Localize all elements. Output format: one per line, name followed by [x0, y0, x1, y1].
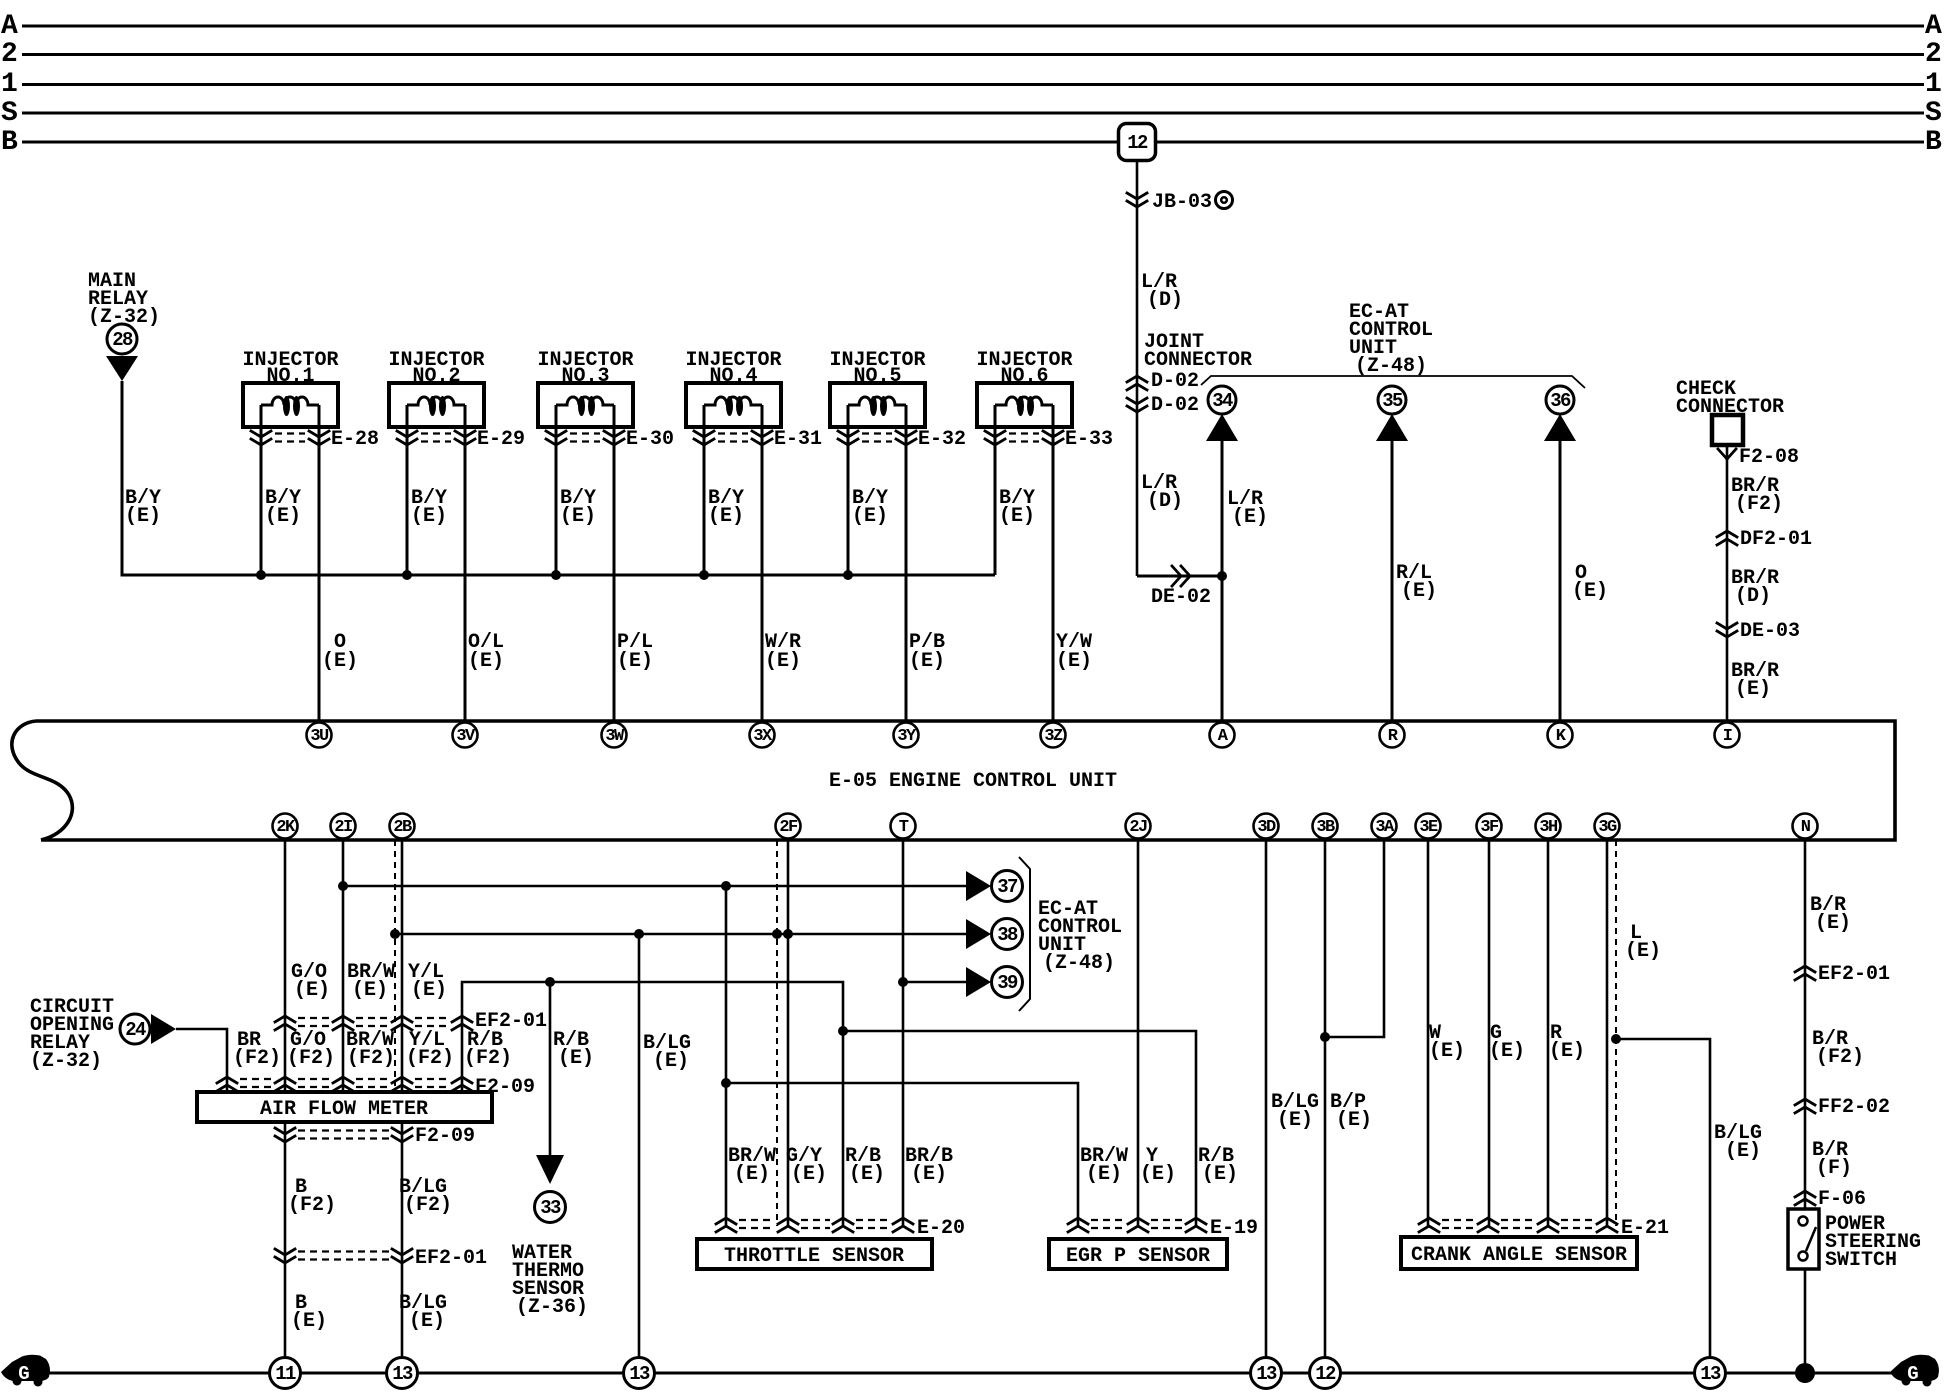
- svg-text:EGR P SENSOR: EGR P SENSOR: [1066, 1245, 1210, 1268]
- svg-text:3B: 3B: [1316, 818, 1335, 837]
- svg-text:(E): (E): [411, 505, 447, 528]
- circuit opening relay circle 24: [120, 1014, 150, 1044]
- junction dot on pin A wire: [1217, 571, 1227, 581]
- ground bus junction dot: [1795, 1363, 1815, 1383]
- daisy mark after JB-03: [1216, 192, 1233, 209]
- svg-text:F2-09: F2-09: [415, 1125, 475, 1148]
- svg-text:(F2): (F2): [1816, 1046, 1864, 1069]
- svg-text:(E): (E): [1549, 1040, 1585, 1063]
- wire ECU 3A joins 3B: [1325, 840, 1384, 1037]
- junction dot T wire: [898, 977, 908, 987]
- shield dashed wire at 2B: [394, 840, 396, 1086]
- svg-text:F2-08: F2-08: [1739, 446, 1799, 469]
- ECU top pin A: [1210, 723, 1235, 748]
- ECU bottom pin 3G: [1595, 814, 1620, 839]
- ground bus node 12: [1310, 1358, 1341, 1389]
- svg-text:(E): (E): [291, 1310, 327, 1333]
- ECU bottom pin T: [891, 814, 916, 839]
- svg-text:(E): (E): [409, 1310, 445, 1333]
- svg-text:(E): (E): [852, 505, 888, 528]
- svg-text:(E): (E): [560, 505, 596, 528]
- wire injector no.6 left pin B/Y: [994, 405, 997, 575]
- ECU top pin 3Y: [894, 723, 919, 748]
- svg-text:B: B: [1925, 127, 1942, 158]
- svg-text:(E): (E): [1056, 650, 1092, 673]
- wire shield 2B to EC-AT 38: [395, 933, 966, 936]
- EC-AT arrow 34: [1206, 414, 1238, 441]
- svg-text:3H: 3H: [1539, 818, 1558, 837]
- svg-text:(F2): (F2): [288, 1194, 336, 1217]
- svg-text:(D): (D): [1147, 289, 1183, 312]
- check connector box: [1712, 415, 1743, 445]
- svg-text:(Z-48): (Z-48): [1043, 952, 1115, 975]
- wire joint connector to pin A wire: [1137, 575, 1222, 578]
- svg-text:E-05 ENGINE CONTROL UNIT: E-05 ENGINE CONTROL UNIT: [829, 770, 1117, 793]
- wire bus line A: [22, 25, 1924, 28]
- connector chevron row EF2-01 lower: [275, 1249, 295, 1263]
- svg-text:B: B: [1, 127, 18, 158]
- svg-text:3G: 3G: [1598, 818, 1617, 837]
- svg-text:S: S: [1925, 98, 1942, 129]
- connector Y symbol F2-08: [1718, 449, 1736, 459]
- wire bus line 2: [22, 53, 1924, 56]
- connector chevron row F2-09 upper: [217, 1077, 237, 1091]
- wire circuit opening relay BR to air flow meter: [176, 1029, 227, 1092]
- junction dot throttle BR/W tap: [721, 881, 731, 891]
- svg-text:AIR FLOW METER: AIR FLOW METER: [260, 1098, 428, 1121]
- svg-text:(E): (E): [999, 505, 1035, 528]
- ECU bottom pin 3B: [1313, 814, 1338, 839]
- svg-text:3Z: 3Z: [1044, 727, 1063, 746]
- svg-text:(E): (E): [1429, 1040, 1465, 1063]
- junction dot shield 2B: [390, 929, 400, 939]
- svg-text:2F: 2F: [779, 818, 798, 837]
- svg-text:E-28: E-28: [331, 428, 379, 451]
- connector chevron D-02 upper: [1127, 376, 1147, 390]
- svg-text:G: G: [1907, 1363, 1918, 1385]
- connector chevron EF2-01 N wire: [1795, 966, 1815, 980]
- wire shield 3G to ground bus: [1616, 1039, 1710, 1373]
- junction dot water thermo tap: [545, 977, 555, 987]
- wire power steering switch to ground bus: [1804, 1269, 1807, 1373]
- ECU bottom pin 3H: [1536, 814, 1561, 839]
- ECU top pin I: [1715, 723, 1740, 748]
- svg-text:E-32: E-32: [918, 428, 966, 451]
- svg-text:1: 1: [1925, 69, 1942, 100]
- EC-AT pin circle 38: [992, 919, 1023, 950]
- ECU bottom pin N: [1793, 814, 1818, 839]
- EC-AT arrow 38: [966, 919, 991, 949]
- wire injector no.3 left pin B/Y: [555, 405, 558, 575]
- ECU top pin 3V: [453, 723, 478, 748]
- junction dot R/B to EGR: [838, 1026, 848, 1036]
- bracket EC-AT 37-39: [1019, 857, 1030, 1011]
- connector chevron DE-02: [1172, 566, 1190, 586]
- power steering switch lever: [1806, 1227, 1816, 1251]
- svg-text:34: 34: [1212, 390, 1233, 412]
- ground bus node 13 d: [1695, 1358, 1726, 1389]
- svg-text:(E): (E): [1489, 1040, 1525, 1063]
- svg-text:DE-02: DE-02: [1151, 586, 1211, 609]
- svg-text:(E): (E): [1572, 580, 1608, 603]
- wire injector no.5 right pin to ECU pin: [905, 405, 908, 721]
- svg-text:A: A: [1925, 11, 1942, 42]
- junction dot injector4 feed: [699, 570, 709, 580]
- junction dot shield 2F: [772, 929, 782, 939]
- svg-text:F-06: F-06: [1818, 1188, 1866, 1211]
- svg-text:(E): (E): [1086, 1163, 1122, 1186]
- svg-text:G: G: [18, 1363, 29, 1385]
- svg-text:11: 11: [275, 1363, 296, 1385]
- air flow meter box: [197, 1092, 492, 1122]
- svg-text:NO.6: NO.6: [1000, 365, 1048, 388]
- svg-text:(E): (E): [708, 505, 744, 528]
- svg-text:NO.2: NO.2: [412, 365, 460, 388]
- injector no.6 connector chevrons E-33: [985, 431, 1005, 445]
- ECU bottom pin 3D: [1254, 814, 1279, 839]
- ground symbol G left: [1, 1355, 50, 1381]
- injector no.2 box: [389, 383, 484, 427]
- junction dot injector2 feed: [402, 570, 412, 580]
- svg-text:(F): (F): [1816, 1157, 1852, 1180]
- svg-text:2B: 2B: [393, 818, 412, 837]
- ECU bottom pin 2I: [331, 814, 356, 839]
- shield dashed wire at 3G: [1615, 840, 1617, 1226]
- wire injector no.5 left pin B/Y: [847, 405, 850, 575]
- wire bus line S: [22, 112, 1924, 115]
- power steering switch box: [1788, 1209, 1819, 1269]
- svg-text:13: 13: [1700, 1363, 1721, 1385]
- ECU top pin 3Z: [1041, 723, 1066, 748]
- connector chevron row E-21: [1419, 1218, 1439, 1232]
- svg-text:12: 12: [1127, 132, 1148, 154]
- wire main relay feed B/Y: [122, 381, 995, 575]
- svg-text:NO.1: NO.1: [266, 365, 314, 388]
- svg-text:38: 38: [997, 924, 1018, 946]
- svg-text:D-02: D-02: [1151, 394, 1199, 417]
- svg-text:3E: 3E: [1419, 818, 1438, 837]
- ECU bottom pin 3E: [1416, 814, 1441, 839]
- svg-text:(E): (E): [617, 650, 653, 673]
- wire from connector 12 down to joint connector: [1136, 160, 1139, 576]
- ECU top pin 3U: [307, 723, 332, 748]
- wire injector no.3 right pin to ECU pin: [613, 405, 616, 721]
- shield dashed wire at 2F: [776, 840, 778, 1226]
- svg-text:3W: 3W: [605, 727, 625, 746]
- wire ECU 3B to ground bus: [1324, 840, 1327, 1373]
- svg-text:(E): (E): [849, 1163, 885, 1186]
- svg-text:35: 35: [1382, 390, 1403, 412]
- svg-text:(E): (E): [322, 650, 358, 673]
- svg-text:28: 28: [112, 329, 133, 351]
- svg-text:A: A: [1, 11, 18, 42]
- svg-text:(E): (E): [1336, 1109, 1372, 1132]
- connector chevron row E-20: [716, 1218, 736, 1232]
- svg-text:I: I: [1723, 727, 1732, 746]
- power steering switch contacts: [1799, 1217, 1808, 1226]
- injector no.2 coil: [407, 397, 465, 405]
- ECU bottom pin 3A: [1372, 814, 1397, 839]
- svg-text:DE-03: DE-03: [1740, 620, 1800, 643]
- injector no.4 box: [686, 383, 781, 427]
- injector no.4 coil: [704, 397, 762, 405]
- ECU bottom pin 3F: [1477, 814, 1502, 839]
- connector chevron row E-19: [1068, 1218, 1088, 1232]
- svg-text:3X: 3X: [753, 727, 773, 746]
- svg-text:NO.3: NO.3: [561, 365, 609, 388]
- ground bus node 11: [270, 1358, 301, 1389]
- svg-text:SWITCH: SWITCH: [1825, 1249, 1897, 1272]
- connector chevron DF2-01: [1717, 531, 1737, 545]
- svg-text:CONNECTOR: CONNECTOR: [1144, 349, 1252, 372]
- wire EC-AT 36 to ECU pin K: [1559, 441, 1562, 721]
- connector chevron DE-03: [1717, 623, 1737, 637]
- wire ECU 2I to air flow meter: [342, 840, 345, 1092]
- svg-text:E-19: E-19: [1210, 1217, 1258, 1240]
- svg-text:EF2-01: EF2-01: [1818, 963, 1890, 986]
- ECU E-05 box outline: [12, 721, 1895, 840]
- svg-text:THROTTLE SENSOR: THROTTLE SENSOR: [724, 1245, 904, 1268]
- svg-text:(E): (E): [911, 1163, 947, 1186]
- wire injector no.4 right pin to ECU pin: [761, 405, 764, 721]
- svg-text:(F2): (F2): [404, 1194, 452, 1217]
- svg-text:(E): (E): [265, 505, 301, 528]
- svg-text:2K: 2K: [276, 818, 296, 837]
- main relay circle 28: [107, 324, 137, 354]
- svg-text:(E): (E): [1815, 912, 1851, 935]
- svg-text:(E): (E): [352, 979, 388, 1002]
- junction dot injector3 feed: [551, 570, 561, 580]
- wire ECU 3H to crank angle sensor R: [1547, 840, 1550, 1226]
- svg-text:DF2-01: DF2-01: [1740, 528, 1812, 551]
- EC-AT pin circle 34: [1208, 386, 1236, 414]
- wire R/B air flow meter to throttle sensor: [462, 982, 843, 1226]
- svg-text:E-31: E-31: [774, 428, 822, 451]
- connector chevron row EF2-01: [275, 1016, 295, 1030]
- ground bus wire: [45, 1372, 1895, 1375]
- svg-text:2J: 2J: [1129, 818, 1147, 837]
- svg-text:(E): (E): [1725, 1140, 1761, 1163]
- throttle sensor box: [697, 1239, 932, 1269]
- wire injector no.1 right pin to ECU pin: [318, 405, 321, 721]
- EC-AT arrow 35: [1376, 414, 1408, 441]
- svg-text:(E): (E): [909, 650, 945, 673]
- svg-text:(E): (E): [1401, 580, 1437, 603]
- injector no.5 coil: [848, 397, 906, 405]
- connector 12 on line B: [1119, 124, 1156, 161]
- svg-text:2: 2: [1925, 39, 1942, 70]
- svg-text:F2-09: F2-09: [475, 1076, 535, 1099]
- ground bus node 13 b: [624, 1358, 655, 1389]
- crank angle sensor box: [1401, 1237, 1637, 1269]
- injector no.4 connector chevrons E-31: [694, 431, 714, 445]
- svg-text:(E): (E): [468, 650, 504, 673]
- injector no.1 coil: [261, 397, 319, 405]
- wire 2I to EC-AT 37: [343, 885, 966, 888]
- svg-text:E-30: E-30: [626, 428, 674, 451]
- injector no.3 connector chevrons E-30: [546, 431, 566, 445]
- circuit opening relay arrow: [151, 1014, 176, 1044]
- svg-text:(E): (E): [411, 979, 447, 1002]
- svg-text:(E): (E): [1277, 1109, 1313, 1132]
- svg-text:NO.5: NO.5: [853, 365, 901, 388]
- junction dot injector1 feed: [256, 570, 266, 580]
- EC-AT pin circle 36: [1546, 386, 1574, 414]
- svg-text:3A: 3A: [1375, 818, 1395, 837]
- svg-text:3D: 3D: [1257, 818, 1276, 837]
- svg-text:13: 13: [629, 1363, 650, 1385]
- connector chevron JB-03: [1127, 193, 1147, 207]
- ECU bottom pin 2B: [390, 814, 415, 839]
- svg-text:(E): (E): [1232, 506, 1268, 529]
- svg-text:(Z-48): (Z-48): [1355, 355, 1427, 378]
- svg-text:T: T: [899, 818, 909, 837]
- wire EC-AT 35 to ECU pin R: [1391, 441, 1394, 721]
- svg-text:3Y: 3Y: [897, 727, 917, 746]
- svg-text:(E): (E): [1625, 940, 1661, 963]
- injector no.2 connector chevrons E-29: [397, 431, 417, 445]
- wire injector no.4 left pin B/Y: [703, 405, 706, 575]
- main relay arrow: [106, 356, 138, 381]
- svg-text:1: 1: [1, 69, 18, 100]
- svg-text:2: 2: [1, 39, 18, 70]
- svg-text:(Z-32): (Z-32): [30, 1050, 102, 1073]
- svg-text:(E): (E): [1202, 1163, 1238, 1186]
- ground symbol G right: [1890, 1355, 1939, 1381]
- wire bus line B right segment: [1157, 141, 1924, 144]
- junction dot BR/W tap to EGR: [721, 1078, 731, 1088]
- injector no.5 box: [830, 383, 925, 427]
- injector no.1 connector chevrons E-28: [251, 431, 271, 445]
- svg-text:(F2): (F2): [233, 1047, 281, 1070]
- svg-text:S: S: [1, 98, 18, 129]
- wire ECU 3E to crank angle sensor W: [1427, 840, 1430, 1226]
- svg-text:N: N: [1801, 818, 1811, 837]
- bracket over EC-AT pins 34-36: [1201, 376, 1585, 388]
- svg-text:37: 37: [997, 876, 1018, 898]
- junction dot 2I wire: [338, 881, 348, 891]
- EC-AT arrow 37: [966, 871, 991, 901]
- svg-text:3U: 3U: [310, 727, 329, 746]
- ECU bottom pin 2F: [776, 814, 801, 839]
- svg-text:(D): (D): [1735, 585, 1771, 608]
- svg-text:3V: 3V: [456, 727, 476, 746]
- svg-text:33: 33: [540, 1197, 561, 1219]
- injector no.3 coil: [556, 397, 614, 405]
- svg-text:(F2): (F2): [406, 1047, 454, 1070]
- EC-AT pin circle 35: [1378, 386, 1406, 414]
- wire ECU 3G to crank angle sensor L: [1606, 840, 1609, 1226]
- EC-AT pin circle 37: [992, 871, 1023, 902]
- svg-text:NO.4: NO.4: [709, 365, 757, 388]
- injector no.1 box: [243, 383, 338, 427]
- wire ECU 2F to throttle sensor G/Y: [787, 840, 790, 1226]
- svg-text:(E): (E): [125, 505, 161, 528]
- connector chevron FF2-02: [1795, 1099, 1815, 1113]
- wire T to EC-AT 39: [903, 981, 966, 984]
- wire EC-AT 34 to ECU pin A: [1221, 441, 1224, 721]
- wire ECU T to throttle sensor BR/B: [902, 840, 905, 1226]
- wire bus line B left segment: [22, 141, 1118, 144]
- wire R/B to EGR P sensor: [843, 1031, 1196, 1226]
- wire bus line 1: [22, 83, 1924, 86]
- wire water thermo R/B: [549, 982, 552, 1155]
- EC-AT arrow 39: [966, 967, 991, 997]
- svg-text:39: 39: [997, 972, 1018, 994]
- ground bus node 13 a: [387, 1358, 418, 1389]
- svg-text:(E): (E): [1140, 1163, 1176, 1186]
- svg-text:(F2): (F2): [1735, 493, 1783, 516]
- svg-text:EF2-01: EF2-01: [415, 1247, 487, 1270]
- connector chevron D-02 lower: [1127, 398, 1147, 412]
- svg-text:36: 36: [1550, 390, 1571, 412]
- svg-text:12: 12: [1315, 1363, 1336, 1385]
- wire injector no.2 right pin to ECU pin: [464, 405, 467, 721]
- ECU top pin 3W: [602, 723, 627, 748]
- ground bus node 13 c: [1251, 1358, 1282, 1389]
- connector chevron row F2-09 lower: [275, 1128, 295, 1142]
- svg-text:13: 13: [1256, 1363, 1277, 1385]
- svg-text:(E): (E): [765, 650, 801, 673]
- junction dot shield 3G: [1611, 1034, 1621, 1044]
- ECU bottom pin 2J: [1126, 814, 1151, 839]
- svg-text:(E): (E): [734, 1163, 770, 1186]
- ECU top pin R: [1380, 723, 1405, 748]
- injector no.3 box: [538, 383, 633, 427]
- svg-text:(E): (E): [558, 1047, 594, 1070]
- svg-text:D-02: D-02: [1151, 370, 1199, 393]
- wire ECU 3D to ground bus: [1265, 840, 1268, 1373]
- wire air flow meter B to ground: [284, 1122, 287, 1373]
- svg-text:E-29: E-29: [477, 428, 525, 451]
- ECU bottom pin 2K: [273, 814, 298, 839]
- svg-text:(E): (E): [791, 1163, 827, 1186]
- svg-text:(D): (D): [1147, 490, 1183, 513]
- EC-AT pin circle 39: [992, 967, 1023, 998]
- injector no.6 coil: [995, 397, 1053, 405]
- svg-text:(E): (E): [653, 1050, 689, 1073]
- svg-text:(F2): (F2): [464, 1047, 512, 1070]
- svg-text:FF2-02: FF2-02: [1818, 1096, 1890, 1119]
- ECU top pin K: [1548, 723, 1573, 748]
- svg-text:(F2): (F2): [347, 1047, 395, 1070]
- svg-text:13: 13: [392, 1363, 413, 1385]
- wire ECU N to power steering switch: [1804, 840, 1807, 1209]
- svg-text:24: 24: [125, 1019, 146, 1041]
- EC-AT arrow 36: [1544, 414, 1576, 441]
- wire check connector to ECU pin I: [1726, 445, 1729, 721]
- wire injector no.1 left pin B/Y: [260, 405, 263, 575]
- svg-text:E-20: E-20: [917, 1217, 965, 1240]
- injector no.5 connector chevrons E-32: [838, 431, 858, 445]
- junction dot B/LG tap: [634, 929, 644, 939]
- svg-text:E-33: E-33: [1065, 428, 1113, 451]
- svg-text:CRANK ANGLE SENSOR: CRANK ANGLE SENSOR: [1411, 1244, 1627, 1267]
- ECU top pin 3X: [750, 723, 775, 748]
- wire air flow meter B/LG to ground: [401, 1122, 404, 1373]
- connector chevron F-06: [1795, 1191, 1815, 1205]
- wire injector no.6 right pin to ECU pin: [1052, 405, 1055, 721]
- wire B/LG to ground bus: [638, 934, 641, 1373]
- junction dot 3A-3B: [1320, 1032, 1330, 1042]
- svg-text:3F: 3F: [1480, 818, 1499, 837]
- wire ECU 3F to crank angle sensor G: [1488, 840, 1491, 1226]
- junction dot injector5 feed: [843, 570, 853, 580]
- svg-text:(F2): (F2): [287, 1047, 335, 1070]
- wire BR/W throttle to EGR P sensor: [725, 886, 728, 1226]
- wire BR/W tap to EGR P sensor: [726, 1083, 1078, 1226]
- water thermo circle 33: [535, 1192, 566, 1223]
